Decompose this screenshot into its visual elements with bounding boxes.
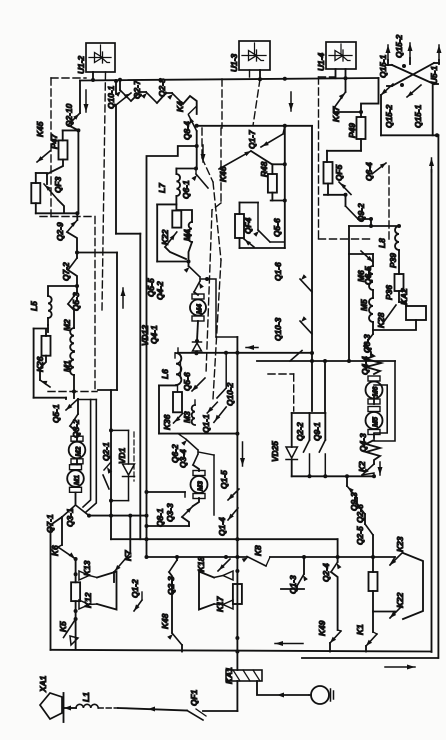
svg-text:M2: M2	[73, 447, 82, 457]
svg-text:Q2-2: Q2-2	[295, 422, 305, 441]
svg-text:Q1-7: Q1-7	[247, 130, 257, 149]
svg-text:K36: K36	[162, 414, 172, 430]
svg-text:L1: L1	[81, 692, 91, 702]
svg-text:VD25: VD25	[270, 441, 280, 462]
svg-text:Q1-1: Q1-1	[201, 414, 211, 433]
svg-text:K18: K18	[196, 556, 206, 572]
svg-text:P49: P49	[347, 123, 357, 138]
svg-text:M1: M1	[72, 475, 81, 485]
svg-text:Q5-1: Q5-1	[51, 404, 61, 423]
svg-text:M1: M1	[62, 360, 72, 372]
svg-text:Q6-4: Q6-4	[364, 162, 374, 181]
svg-text:P36: P36	[384, 285, 394, 300]
svg-text:Q3-3: Q3-3	[165, 503, 175, 522]
svg-text:Q1-6: Q1-6	[273, 262, 283, 281]
svg-text:M6: M6	[370, 386, 379, 397]
svg-text:Q10-3: Q10-3	[273, 317, 283, 341]
svg-text:Q15-1: Q15-1	[413, 104, 423, 128]
svg-text:Q1-2: Q1-2	[130, 579, 140, 598]
svg-text:Q3-4: Q3-4	[178, 449, 188, 468]
svg-text:L6: L6	[160, 369, 170, 379]
svg-text:Q8-4: Q8-4	[182, 121, 192, 140]
svg-text:K1: K1	[355, 624, 365, 635]
svg-text:K22: K22	[395, 592, 405, 608]
svg-text:Q10-1: Q10-1	[106, 85, 116, 109]
svg-text:QF5: QF5	[334, 164, 344, 181]
svg-text:P39: P39	[388, 253, 398, 268]
svg-text:K45: K45	[35, 121, 45, 137]
svg-text:Q15-1: Q15-1	[378, 54, 388, 78]
svg-text:L5: L5	[29, 301, 39, 311]
svg-text:Q2-5: Q2-5	[355, 526, 365, 545]
svg-text:Q5-6: Q5-6	[182, 372, 192, 391]
svg-text:Q4-3: Q4-3	[358, 433, 368, 452]
svg-text:Q2-1: Q2-1	[101, 442, 111, 461]
svg-text:Q9-1: Q9-1	[312, 422, 322, 441]
svg-text:Q1-5: Q1-5	[219, 470, 229, 489]
svg-text:K8: K8	[253, 545, 263, 556]
svg-text:Q2-3: Q2-3	[166, 576, 176, 595]
svg-text:M3: M3	[195, 481, 204, 491]
svg-text:L8: L8	[377, 238, 387, 248]
svg-text:Q15-2: Q15-2	[384, 104, 394, 128]
svg-text:U1-2: U1-2	[76, 56, 86, 74]
svg-text:Q4-2: Q4-2	[155, 281, 165, 300]
svg-text:K48: K48	[160, 613, 170, 629]
svg-text:U1-4: U1-4	[316, 53, 326, 71]
svg-text:Q8-1: Q8-1	[155, 508, 165, 527]
svg-text:Q15-2: Q15-2	[394, 34, 404, 58]
svg-text:M3: M3	[182, 411, 192, 423]
svg-text:QF1: QF1	[189, 689, 199, 706]
svg-text:M5: M5	[370, 416, 379, 427]
svg-text:Q5-6: Q5-6	[272, 218, 282, 237]
svg-text:L7: L7	[157, 183, 167, 193]
svg-text:Q2-4: Q2-4	[321, 563, 331, 582]
svg-text:K49: K49	[317, 620, 327, 636]
svg-text:P47: P47	[49, 134, 59, 149]
svg-text:XA1: XA1	[38, 675, 48, 693]
svg-text:Q1-4: Q1-4	[217, 517, 227, 536]
svg-text:Q2-9: Q2-9	[55, 222, 65, 241]
svg-text:QF3: QF3	[53, 176, 63, 193]
svg-text:K5: K5	[58, 621, 68, 632]
svg-text:K47: K47	[331, 106, 341, 122]
svg-text:U1-3: U1-3	[229, 54, 239, 72]
svg-text:Q1-3: Q1-3	[288, 575, 298, 594]
svg-text:Q4-1: Q4-1	[149, 325, 159, 344]
svg-text:M4: M4	[194, 304, 203, 314]
svg-text:Q6-1: Q6-1	[181, 180, 191, 199]
svg-text:U5-1: U5-1	[429, 66, 439, 84]
svg-text:K23: K23	[395, 536, 405, 552]
svg-text:Q2-6: Q2-6	[355, 504, 365, 523]
svg-text:VD1: VD1	[117, 447, 127, 464]
svg-text:M5: M5	[359, 299, 369, 311]
